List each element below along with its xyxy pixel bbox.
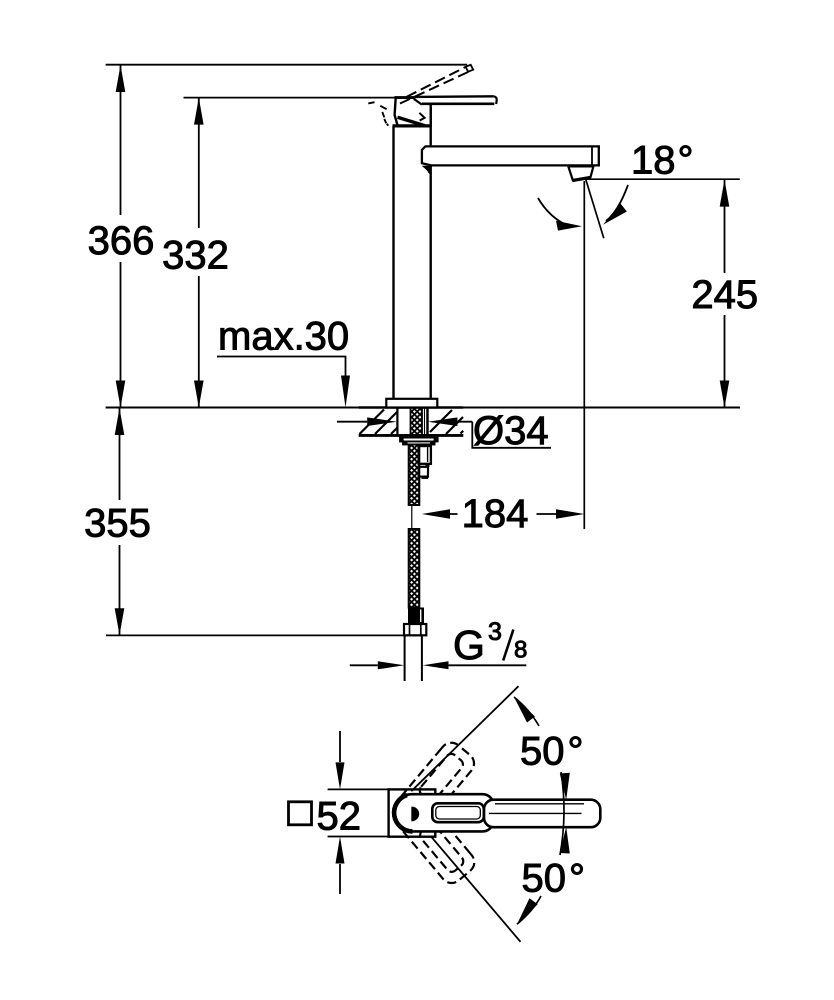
dimension line 355 <box>119 408 121 635</box>
outlet aerator <box>568 166 593 180</box>
handle base top edge thick <box>395 96 426 99</box>
svg-text:max.30: max.30 <box>218 315 349 359</box>
washer under deck <box>400 438 438 442</box>
hose break thin line <box>411 505 413 529</box>
spout-body fillet wedge <box>422 166 432 176</box>
handle lever blade <box>414 96 496 104</box>
lower 50 extension line <box>431 837 520 942</box>
extension lines 52 <box>328 789 389 836</box>
dia 34 arrows <box>337 421 472 423</box>
dimension line 52 <box>339 731 341 894</box>
svg-text:245: 245 <box>691 273 758 317</box>
svg-text:332: 332 <box>162 234 229 278</box>
dimension line 332 <box>198 98 200 408</box>
arc crossing lever <box>560 772 564 855</box>
cartridge mark <box>411 807 419 822</box>
extension line hose end <box>106 634 422 636</box>
handle base bottom thick line <box>393 124 432 127</box>
18deg dimension arc right <box>606 185 628 221</box>
svg-text:52: 52 <box>317 795 362 839</box>
flexible hose lower segment <box>409 529 420 608</box>
shank through counter <box>397 408 427 437</box>
stud lower step <box>419 467 428 477</box>
flange <box>386 399 437 408</box>
spout <box>422 146 599 165</box>
svg-text:G: G <box>453 622 485 668</box>
upper 50 extension line <box>411 686 518 791</box>
deck bottom thick line under shank <box>359 434 463 437</box>
faucet body column <box>394 107 431 399</box>
dashed lever rotated down 50 <box>386 787 479 888</box>
flexible hose upper segment <box>409 445 420 506</box>
head thick left rim <box>394 795 412 831</box>
handle base <box>395 98 431 126</box>
hose ferrule <box>408 608 424 625</box>
G3/8 arrows <box>350 664 527 666</box>
svg-text:355: 355 <box>84 502 151 546</box>
counter cross-section <box>359 406 463 409</box>
svg-text:Ø34: Ø34 <box>473 409 549 453</box>
square symbol <box>289 802 312 825</box>
dashed raised lever blade <box>407 67 466 97</box>
svg-text:3: 3 <box>488 618 502 646</box>
spout end inner line <box>591 146 593 165</box>
spout centerline extension down <box>583 181 585 529</box>
lower 50 arc arrowhead <box>517 898 538 924</box>
blade left end cut <box>414 99 422 105</box>
svg-text:50°: 50° <box>522 857 586 901</box>
arm inner line <box>495 803 584 805</box>
extension line top 366 <box>106 64 468 66</box>
mounting nut bar <box>403 442 435 445</box>
swivel arc left <box>538 198 568 226</box>
mounting stud fitting <box>419 445 431 464</box>
leader max.30 <box>217 357 346 377</box>
svg-text:184: 184 <box>462 492 529 536</box>
plan body square <box>389 789 436 836</box>
G3/8 pipe <box>405 635 422 681</box>
plan lever head <box>393 794 493 831</box>
hatching <box>360 410 464 435</box>
deck line <box>106 406 740 408</box>
upper 50 arc arrowhead <box>514 697 535 723</box>
stream angled line <box>586 179 604 238</box>
18 degree baseline <box>586 178 740 180</box>
hose through counter <box>411 408 423 438</box>
svg-text:8: 8 <box>514 636 527 663</box>
slot <box>432 803 484 822</box>
dimension line 366 <box>120 65 122 408</box>
dia 34 leader <box>472 422 551 448</box>
plan lever arm <box>484 800 600 828</box>
svg-text:366: 366 <box>88 219 155 263</box>
dashed raised handle base outline <box>368 102 388 126</box>
lever centerline <box>489 812 582 814</box>
dashed lever rotated up 50 <box>385 738 478 839</box>
raised blade tip cap <box>466 65 474 72</box>
dimension line 245 <box>724 180 726 408</box>
handle base check mark <box>419 113 424 121</box>
svg-text:18°: 18° <box>631 139 694 183</box>
extension line top 332 <box>184 97 397 99</box>
svg-text:50°: 50° <box>520 730 584 774</box>
dimension line 184 <box>450 513 557 515</box>
G3/8 nut <box>404 624 426 635</box>
handle base inner diagonal <box>398 117 426 126</box>
